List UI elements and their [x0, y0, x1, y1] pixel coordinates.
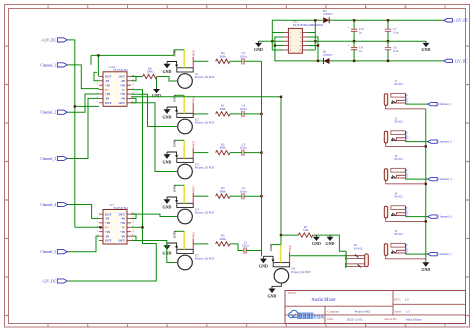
svg-text:+IN: +IN [120, 92, 126, 96]
svg-text:600k: 600k [220, 54, 227, 58]
svg-text:Channel_2: Channel_2 [40, 111, 56, 115]
wire pot U2 output [193, 113, 208, 115]
svg-text:Project_62 POT: Project_62 POT [195, 257, 215, 261]
wire Channel_1 to U14 [67, 65, 99, 89]
svg-text:OUT: OUT [118, 239, 125, 243]
svg-text:C: C [467, 122, 469, 125]
svg-text:GND: GND [173, 49, 177, 57]
resistor R2 600k [216, 150, 230, 154]
svg-text:TL074CN4: TL074CN4 [113, 68, 128, 72]
svg-text:V-: V- [122, 88, 125, 92]
svg-text:0.01u: 0.01u [242, 244, 249, 248]
power wiring left loop [272, 20, 322, 32]
svg-text:1N5817: 1N5817 [323, 12, 333, 16]
svg-text:5: 5 [97, 230, 98, 232]
svg-text:1N5817: 1N5817 [323, 53, 333, 57]
svg-text:Channel_3: Channel_3 [438, 177, 452, 181]
wire pot U3 output [193, 152, 208, 154]
svg-text:GND: GND [326, 241, 335, 246]
port Channel_5 [57, 250, 67, 254]
GND near U14 [156, 77, 158, 88]
svg-text:4: 4 [407, 175, 408, 177]
svg-text:Channel_2: Channel_2 [438, 140, 452, 144]
wire pot U5 output [193, 243, 208, 245]
resistor R4 600k [216, 59, 230, 63]
svg-text:+12V_DC: +12V_DC [453, 19, 469, 23]
svg-text:Audio Mixer: Audio Mixer [311, 298, 336, 303]
svg-text:TL074CN4: TL074CN4 [113, 206, 128, 210]
svg-text:4: 4 [407, 138, 408, 140]
svg-text:Sheet:: Sheet: [394, 309, 401, 313]
svg-text:G: G [6, 276, 8, 279]
svg-text:GND: GND [422, 47, 431, 52]
resistor R7 3.9k [281, 234, 299, 236]
svg-text:SZ10105DGAIBK00A01: SZ10105DGAIBK00A01 [293, 23, 324, 27]
svg-text:1u: 1u [359, 49, 363, 53]
svg-text:+12V_DC: +12V_DC [41, 38, 57, 42]
svg-text:12: 12 [132, 84, 134, 86]
svg-text:1: 1 [97, 213, 98, 215]
R6 100k resistor [143, 74, 157, 78]
svg-text:OUT: OUT [118, 75, 125, 79]
potentiometer U1 Project_62 POT [167, 62, 177, 66]
feedback wires U14 [94, 72, 99, 80]
svg-text:0.01u: 0.01u [240, 189, 247, 193]
wire U14 out1 through R6 to pot1 [131, 76, 143, 78]
svg-text:V-: V- [122, 226, 125, 230]
port Channel_1 (right) [428, 102, 438, 105]
svg-text:OUT: OUT [105, 101, 112, 105]
svg-text:+IN: +IN [105, 92, 111, 96]
svg-text:Project_62 POT: Project_62 POT [195, 75, 215, 79]
wire Channel_2 to U14 +IN [67, 94, 99, 112]
svg-text:600k: 600k [220, 237, 227, 241]
capacitor C4 0.01u [241, 111, 243, 117]
svg-text:Project_62 POT: Project_62 POT [195, 211, 215, 215]
potentiometer U3 Project_62 POT [167, 152, 177, 156]
svg-text:+: + [348, 44, 350, 48]
svg-text:GND: GND [173, 95, 177, 103]
port Channel_2 (right) [428, 140, 438, 143]
svg-text:2: 2 [407, 245, 408, 247]
svg-text:1: 1 [97, 75, 98, 77]
wire Channel_3 to U14 [67, 98, 99, 158]
wire cap to summing bus [246, 250, 261, 252]
svg-text:9: 9 [290, 50, 291, 52]
potentiometer U2 Project_62 POT [167, 107, 177, 111]
svg-text:Channel_5: Channel_5 [438, 252, 452, 256]
svg-text:GND: GND [312, 241, 321, 246]
svg-text:600k: 600k [220, 107, 227, 111]
svg-text:REV:: REV: [394, 298, 401, 302]
svg-text:B: B [467, 84, 469, 87]
svg-text:PJ-612: PJ-612 [395, 232, 404, 236]
op-amp U7 (TL074CN) [103, 210, 127, 245]
svg-text:+IN: +IN [105, 230, 111, 234]
wire bottom rail [330, 60, 444, 62]
feedback wires U7 [131, 214, 136, 218]
svg-text:GND: GND [163, 159, 172, 164]
port Channel_1 [57, 63, 67, 67]
master pot U6 [280, 235, 282, 245]
svg-text:600k: 600k [220, 189, 227, 193]
wire jack J3 to port [405, 178, 427, 180]
svg-text:PJ-612: PJ-612 [354, 247, 363, 251]
svg-text:Project_62 POT: Project_62 POT [291, 270, 311, 274]
svg-text:H: H [6, 315, 8, 318]
svg-text:3: 3 [97, 84, 98, 86]
ground bus right [425, 109, 427, 262]
svg-text:Project_62 POT: Project_62 POT [195, 121, 215, 125]
svg-text:4: 4 [407, 213, 408, 215]
svg-text:A: A [6, 45, 8, 48]
wire R7 to jack J6 [313, 235, 347, 251]
svg-text:2: 2 [300, 33, 301, 35]
svg-text:+: + [348, 25, 350, 29]
summing wire to mix bus [131, 97, 281, 235]
svg-text:600k: 600k [220, 146, 227, 150]
svg-text:VCC: VCC [192, 186, 196, 193]
resistor R5 600k [216, 242, 230, 246]
wire Channel_4 to U7 [67, 205, 99, 219]
svg-text:+IN: +IN [105, 83, 111, 87]
svg-text:10: 10 [132, 230, 134, 232]
title block [285, 291, 466, 324]
wire jack J4 to port [405, 216, 427, 218]
wire pot U1 output [193, 60, 208, 62]
svg-text:Drawn By:: Drawn By: [385, 317, 398, 321]
svg-text:0.01u: 0.01u [240, 146, 247, 150]
svg-text:2: 2 [407, 95, 408, 97]
svg-text:VCC: VCC [192, 50, 196, 57]
svg-text:PJ-612: PJ-612 [395, 195, 404, 199]
svg-text:2: 2 [407, 208, 408, 210]
svg-text:Project_62 POT: Project_62 POT [195, 166, 215, 170]
svg-text:0.01u: 0.01u [240, 54, 247, 58]
port Channel_2 [57, 110, 67, 114]
port Channel_4 [57, 202, 67, 206]
svg-text:A: A [467, 45, 469, 48]
svg-text:2: 2 [407, 170, 408, 172]
svg-text:D: D [467, 161, 469, 164]
power wiring right loop [307, 20, 315, 32]
svg-text:PJ-612: PJ-612 [395, 82, 404, 86]
GND for pot U3 [164, 154, 171, 159]
svg-text:Date:: Date: [327, 317, 333, 321]
wire +12V rail down left side [67, 40, 75, 227]
capacitor C5 0.01u [241, 58, 243, 64]
wire jack J5 to port [405, 253, 427, 255]
svg-text:OUT: OUT [105, 75, 112, 79]
summing bus vertical [261, 61, 263, 250]
svg-text:-12V_DC: -12V_DC [42, 279, 57, 283]
svg-text:-12V_DC: -12V_DC [453, 59, 468, 63]
power module U13 SZ10105 [288, 28, 302, 53]
op-amp U14 (TL074CN) [103, 72, 127, 107]
svg-text:EDA: EDA [314, 315, 325, 320]
wire U14 to pot2 [131, 94, 178, 126]
mid GND rail [259, 40, 284, 42]
svg-text:1: 1 [290, 33, 291, 35]
svg-text:Channel_1: Channel_1 [438, 102, 452, 106]
wire -12V to V- pins [67, 90, 156, 281]
svg-text:Channel_4: Channel_4 [40, 203, 56, 207]
port Channel_3 [57, 156, 67, 160]
svg-text:Company:: Company: [327, 309, 339, 313]
svg-text:Channel_4: Channel_4 [438, 215, 452, 219]
resistor R1 600k [216, 112, 230, 116]
svg-text:VCC: VCC [192, 141, 196, 148]
svg-text:VCC: VCC [192, 232, 196, 239]
svg-text:+IN: +IN [105, 221, 111, 225]
capacitor C3 0.01u [241, 149, 243, 155]
svg-text:B: B [6, 84, 8, 87]
svg-text:1u: 1u [359, 31, 363, 35]
port Channel_5 (right) [428, 252, 438, 255]
port -12V_DC (left) [57, 279, 67, 283]
svg-text:C: C [6, 122, 8, 125]
svg-text:7: 7 [97, 101, 98, 103]
svg-text:OUT: OUT [118, 212, 125, 216]
svg-text:D: D [6, 161, 8, 164]
svg-text:PJ-612: PJ-612 [395, 120, 404, 124]
wire top rail [329, 19, 444, 21]
svg-text:Channel_1: Channel_1 [40, 63, 56, 67]
potentiometer U5 Project_62 POT [167, 243, 177, 247]
wire U7 to pot5 [131, 241, 178, 263]
svg-text:3: 3 [97, 222, 98, 224]
svg-text:12: 12 [132, 222, 134, 224]
wire cap to summing bus [244, 60, 262, 62]
GND below U6 [272, 284, 281, 289]
wire cap to summing bus [244, 113, 262, 115]
svg-text:7: 7 [97, 239, 98, 241]
GND for pot U2 [164, 109, 171, 114]
wire U7 to pot4 [131, 214, 178, 216]
svg-text:H: H [467, 315, 469, 318]
wire U14 to pot3 [131, 103, 178, 172]
potentiometer U6 Project_62 POT [263, 256, 273, 260]
port Channel_4 (right) [428, 215, 438, 218]
port -12V_DC (right) [444, 59, 453, 62]
svg-text:OUT: OUT [105, 212, 112, 216]
capacitor C2 0.01u [241, 193, 243, 199]
wire jack J1 to port [405, 103, 427, 105]
svg-text:0.1u: 0.1u [393, 49, 399, 53]
wire Channel_5 to U7 [67, 236, 99, 252]
svg-text:Channel_3: Channel_3 [40, 157, 56, 161]
capacitor C7 0.1u [387, 20, 389, 29]
svg-text:GND: GND [173, 185, 177, 193]
capacitor C8 1u [353, 41, 355, 47]
svg-text:4: 4 [407, 250, 408, 252]
svg-text:3.9k: 3.9k [303, 228, 309, 232]
GND for pot U6 [260, 259, 267, 264]
svg-text:0.1u: 0.1u [393, 31, 399, 35]
svg-text:GND: GND [163, 204, 172, 209]
svg-text:GND: GND [259, 264, 268, 269]
svg-text:GND: GND [254, 47, 263, 52]
svg-text:GND: GND [173, 140, 177, 148]
svg-text:Channel_5: Channel_5 [40, 250, 56, 254]
GND power left [258, 41, 260, 43]
GND for pot U4 [164, 199, 171, 204]
svg-text:GND: GND [269, 244, 273, 252]
EasyEDA logo [289, 310, 300, 317]
svg-text:GND: GND [173, 231, 177, 239]
resistor R3 600k [216, 194, 230, 198]
potentiometer U4 Project_62 POT [167, 197, 177, 201]
svg-text:OUT: OUT [118, 101, 125, 105]
wire pot U4 output [193, 195, 208, 197]
svg-text:100k: 100k [147, 70, 154, 74]
wire cap to summing bus [244, 195, 262, 197]
svg-text:V+: V+ [105, 88, 109, 92]
svg-text:1/1: 1/1 [406, 310, 411, 314]
svg-text:1.0: 1.0 [405, 298, 410, 302]
svg-text:Max Ellzey: Max Ellzey [406, 317, 422, 321]
svg-text:GND: GND [421, 267, 430, 272]
svg-text:OUT: OUT [105, 239, 112, 243]
capacitor C1 0.01u [243, 247, 245, 253]
port +12V_DC (left) [57, 38, 67, 42]
port +12V_DC (right) [444, 19, 453, 22]
GND for pot U5 [164, 245, 171, 250]
svg-text:V+: V+ [105, 226, 109, 230]
GND power right [425, 41, 427, 43]
GND bottom right [422, 262, 429, 267]
svg-text:TITLE:: TITLE: [287, 291, 296, 295]
svg-text:GND: GND [163, 114, 172, 119]
svg-text:Project #62: Project #62 [355, 310, 371, 314]
svg-text:2022-12-02: 2022-12-02 [347, 317, 363, 321]
svg-text:0.01u: 0.01u [240, 107, 247, 111]
wire U6 to jack J6 [290, 255, 346, 257]
svg-text:+IN: +IN [120, 230, 126, 234]
svg-text:GND: GND [268, 293, 277, 298]
svg-text:2: 2 [407, 133, 408, 135]
capacitor C10 1u [353, 20, 355, 29]
svg-text:+IN: +IN [120, 83, 126, 87]
port Channel_3 (right) [428, 177, 438, 180]
wire U14 out to top rail [97, 55, 99, 76]
svg-text:VCC: VCC [288, 245, 292, 252]
svg-text:PJ-612: PJ-612 [395, 157, 404, 161]
svg-text:4: 4 [407, 100, 408, 102]
capacitor C6 0.1u [387, 41, 389, 47]
svg-text:GND: GND [163, 69, 172, 74]
GND under R7 output 2 [329, 235, 331, 237]
wire jack J2 to port [405, 141, 427, 143]
GND under R7 output 1 [315, 235, 317, 237]
GND for pot U1 [164, 64, 171, 69]
wire cap to summing bus [244, 152, 262, 154]
svg-text:+IN: +IN [120, 221, 126, 225]
svg-text:G: G [467, 276, 469, 279]
